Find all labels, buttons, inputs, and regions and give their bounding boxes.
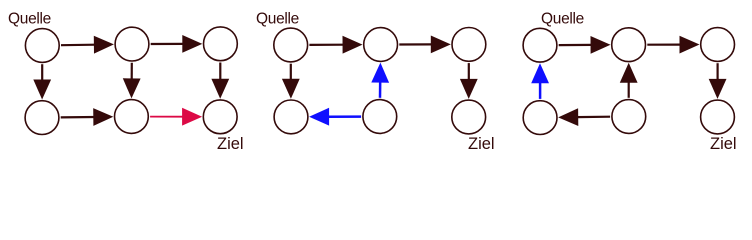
node Ziel (bottom-right) graph 3: [701, 100, 735, 134]
node top-middle graph 3: [612, 28, 646, 62]
edge bottom-middle -> bottom-left (dark arrow) graph 3: [558, 108, 610, 126]
label Quelle graph 1: [8, 11, 51, 28]
edge top-right -> Ziel (bottom-right) (dark arrow) graph 1: [211, 63, 229, 99]
edge top-middle -> bottom-middle (dark arrow) graph 1: [123, 63, 141, 99]
node bottom-middle graph 1: [114, 100, 148, 134]
node bottom-left graph 2: [274, 100, 308, 134]
label Ziel graph 1: [217, 135, 244, 153]
svg-text:Ziel: Ziel: [468, 135, 495, 153]
edge Quelle (top-left) -> top-middle (dark arrow) graph 1: [61, 36, 114, 54]
node Quelle (top-left) graph 3: [523, 28, 557, 62]
svg-text:Quelle: Quelle: [541, 11, 584, 28]
edge Quelle (top-left) -> top-middle (dark arrow) graph 2: [309, 36, 362, 54]
edge Quelle (top-left) -> top-middle (dark arrow) graph 3: [559, 36, 611, 54]
svg-text:Ziel: Ziel: [710, 135, 737, 153]
node top-right graph 3: [701, 28, 735, 62]
edge bottom-middle -> bottom-left (blue arrow) graph 2: [309, 108, 361, 126]
edge top-right -> Ziel (bottom-right) (dark arrow) graph 2: [460, 63, 478, 99]
edge top-middle -> top-right (dark arrow) graph 3: [647, 36, 699, 54]
node Quelle (top-left) graph 2: [274, 28, 308, 62]
edge bottom-middle -> Ziel (bottom-right) (crimson arrow) graph 1: [150, 108, 202, 126]
node top-middle graph 2: [364, 28, 398, 62]
node top-right graph 1: [204, 27, 238, 61]
label Quelle graph 3: [541, 11, 584, 28]
edge top-right -> Ziel (bottom-right) (dark arrow) graph 3: [709, 63, 727, 99]
label Quelle graph 2: [256, 11, 299, 28]
edge bottom-middle -> top-middle (dark arrow) graph 3: [620, 63, 638, 98]
edge Quelle (top-left) -> bottom-left (dark arrow) graph 1: [33, 64, 51, 99]
node Ziel (bottom-right) graph 1: [203, 100, 237, 134]
edge top-middle -> top-right (dark arrow) graph 2: [399, 36, 451, 54]
node Quelle (top-left) graph 1: [25, 29, 59, 63]
svg-text:Ziel: Ziel: [217, 135, 244, 153]
svg-text:Quelle: Quelle: [8, 11, 51, 28]
node bottom-middle graph 3: [612, 100, 646, 134]
node top-right graph 2: [452, 28, 486, 62]
node Ziel (bottom-right) graph 2: [452, 100, 486, 134]
edge bottom-left -> Quelle (top-left) (blue arrow) graph 3: [531, 63, 549, 99]
label Ziel graph 2: [468, 135, 495, 153]
node top-middle graph 1: [115, 27, 149, 61]
node bottom-middle graph 2: [363, 100, 397, 134]
edge bottom-left -> bottom-middle (dark arrow) graph 1: [61, 108, 114, 126]
edge top-middle -> top-right (dark arrow) graph 1: [151, 35, 203, 53]
node bottom-left graph 1: [25, 101, 59, 135]
label Ziel graph 3: [710, 135, 737, 153]
node bottom-left graph 3: [523, 101, 557, 135]
svg-text:Quelle: Quelle: [256, 11, 299, 28]
edge bottom-middle -> top-middle (blue arrow) graph 2: [371, 63, 389, 98]
edge Quelle (top-left) -> bottom-left (dark arrow) graph 2: [282, 64, 300, 99]
